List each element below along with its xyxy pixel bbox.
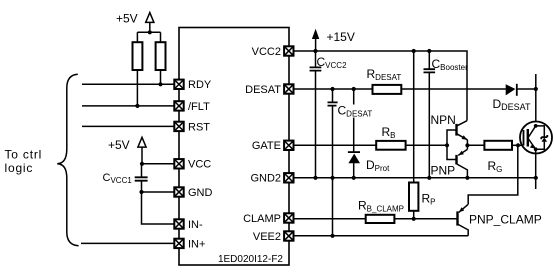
pin IN+ (174, 238, 205, 250)
svg-text:DESAT: DESAT (245, 84, 281, 96)
svg-text:RDY: RDY (188, 79, 212, 91)
junction rail / C_VCC2 (313, 49, 317, 53)
junction DESAT / D_Prot (352, 87, 356, 91)
pin CLAMP (243, 213, 293, 225)
wire base bus to NPN and PNP bases (447, 130, 456, 160)
wire /FLT (82, 105, 174, 107)
svg-text:logic: logic (5, 161, 34, 175)
+5V supply arrow (pull-ups) (146, 13, 154, 33)
wire VEE2 (294, 235, 469, 237)
junction +5V arrow / rail (148, 30, 152, 34)
resistor R_B (376, 141, 405, 150)
wire GND tie to IN- (142, 192, 175, 224)
svg-text:VEE2: VEE2 (253, 231, 281, 243)
svg-text:To ctrl: To ctrl (5, 148, 43, 162)
resistor R_DESAT (373, 85, 402, 94)
wire +5V rail between pull-ups (137, 31, 160, 33)
capacitor C_Booster (424, 51, 436, 178)
resistor R_G (484, 141, 512, 150)
wire GATE (294, 144, 448, 146)
wire VCC (142, 163, 175, 165)
IGBT with freewheel diode (520, 122, 552, 154)
wire IN+ (81, 242, 174, 244)
junction D_Prot / GND2 (352, 176, 356, 180)
junction gate node / clamp path (516, 143, 520, 147)
junction +5V arrow / VCC wire (140, 162, 144, 166)
junction R_P / CLAMP (412, 217, 416, 221)
svg-text:GND: GND (188, 187, 213, 199)
junction D_DESAT / IGBT collector (534, 87, 538, 91)
junction C_VCC2 / GND2 (313, 176, 317, 180)
transistor PNP_CLAMP (458, 145, 518, 236)
junction C_Booster / GND2 (427, 176, 431, 180)
junction pull-up / /FLT wire (135, 104, 139, 108)
junction C_VCC1 / GND wire (139, 190, 143, 194)
capacitor C_DESAT (328, 89, 338, 236)
resistor pull-up to RDY (156, 32, 166, 84)
wire DESAT (294, 88, 506, 90)
svg-text:VCC2: VCC2 (252, 46, 281, 58)
svg-text:GATE: GATE (252, 140, 281, 152)
pin VCC2 (252, 46, 294, 58)
wire VCC2 +15V rail with corner to NPN collector (294, 51, 468, 121)
junction GND2 / IGBT emitter (534, 176, 538, 180)
pin VCC (174, 159, 211, 171)
pin RST (174, 121, 210, 133)
svg-text:IN+: IN+ (188, 238, 205, 250)
capacitor C_VCC2 (310, 51, 322, 178)
svg-text:NPN: NPN (431, 113, 456, 127)
pin /FLT (174, 101, 210, 113)
resistor R_B_CLAMP (366, 215, 395, 223)
wire IGBT emitter (535, 149, 537, 189)
svg-text:/FLT: /FLT (188, 101, 210, 113)
junction rail / C_Booster (427, 49, 431, 53)
brace to control logic (57, 74, 78, 245)
pin DESAT (245, 84, 293, 96)
pin GND (174, 187, 212, 199)
transistor NPN (457, 121, 468, 146)
diode D_Prot (348, 89, 360, 178)
svg-text:RST: RST (188, 121, 210, 133)
transistor PNP (457, 145, 468, 178)
junction DESAT / C_DESAT (330, 87, 334, 91)
junction rail / R_P leg (412, 49, 416, 53)
svg-text:PNP_CLAMP: PNP_CLAMP (469, 213, 542, 227)
resistor pull-up to /FLT (133, 32, 143, 106)
junction C_DESAT / GND2 (330, 176, 334, 180)
pin GATE (252, 140, 294, 152)
svg-text:+15V: +15V (327, 30, 355, 44)
label To ctrl logic (5, 148, 43, 176)
svg-text:VCC: VCC (188, 159, 211, 171)
+5V supply arrow (VCC) (138, 137, 146, 164)
wire IGBT collector (535, 74, 537, 126)
svg-text:+5V: +5V (108, 138, 130, 152)
wire emitters to R_G (467, 144, 484, 146)
junction GATE / base bus (445, 143, 449, 147)
capacitor C_VCC1 (135, 164, 148, 192)
diode D_DESAT (506, 84, 536, 96)
wire R_G to IGBT gate (512, 144, 523, 146)
pin GND2 (250, 173, 293, 185)
pin IN- (174, 219, 203, 231)
svg-text:PNP: PNP (431, 164, 456, 178)
wire GND (142, 191, 175, 193)
svg-text:CLAMP: CLAMP (243, 213, 281, 225)
resistor R_P with leg from +15V rail to CLAMP (409, 51, 418, 219)
pin VEE2 (253, 231, 294, 243)
wire GND2 (294, 177, 536, 179)
gate driver IC 1ED020I12-F2 body (179, 28, 289, 266)
junction emitters / R_G wire (465, 143, 469, 147)
label C_DESAT (with whiteout over D_Prot leg) (337, 104, 373, 119)
junction pull-up / RDY wire (158, 82, 162, 86)
wire RST (82, 125, 174, 127)
junction PNP collector / GND2 (465, 176, 469, 180)
svg-text:GND2: GND2 (250, 173, 281, 185)
svg-text:IN-: IN- (188, 219, 203, 231)
+15V supply arrow (312, 29, 319, 51)
junction C_DESAT leg / VEE2 (330, 234, 334, 238)
wire RDY (82, 83, 174, 85)
pin RDY (174, 79, 212, 91)
svg-text:+5V: +5V (116, 12, 138, 26)
wire CLAMP (294, 218, 457, 220)
svg-text:1ED020I12-F2: 1ED020I12-F2 (218, 254, 283, 265)
